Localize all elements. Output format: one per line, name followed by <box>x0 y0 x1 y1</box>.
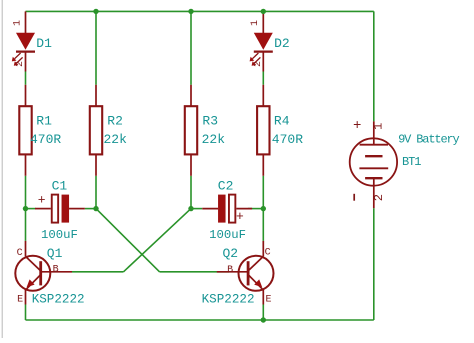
svg-text:100uF: 100uF <box>41 228 78 242</box>
svg-text:22k: 22k <box>202 132 226 147</box>
svg-text:+: + <box>236 209 244 224</box>
svg-text:100uF: 100uF <box>209 228 246 242</box>
svg-text:D1: D1 <box>36 36 52 51</box>
svg-text:R3: R3 <box>202 114 218 129</box>
svg-text:R4: R4 <box>274 114 290 129</box>
svg-text:2: 2 <box>253 61 264 67</box>
svg-text:Q1: Q1 <box>47 246 63 261</box>
svg-text:1: 1 <box>12 20 23 26</box>
svg-text:E: E <box>266 294 272 305</box>
svg-text:B: B <box>53 264 59 275</box>
svg-text:KSP2222: KSP2222 <box>202 292 255 306</box>
svg-text:+: + <box>38 193 46 208</box>
svg-text:2: 2 <box>372 194 386 201</box>
svg-text:C: C <box>265 248 271 259</box>
svg-text:470R: 470R <box>30 132 61 147</box>
svg-text:470R: 470R <box>272 132 303 147</box>
svg-text:1: 1 <box>250 20 261 26</box>
svg-text:2: 2 <box>15 61 26 67</box>
svg-text:R1: R1 <box>36 114 52 129</box>
svg-text:KSP2222: KSP2222 <box>32 292 85 306</box>
svg-text:1: 1 <box>371 123 385 130</box>
svg-text:Q2: Q2 <box>223 246 239 261</box>
svg-text:C1: C1 <box>52 179 68 194</box>
svg-text:C2: C2 <box>218 179 234 194</box>
svg-text:9V Battery: 9V Battery <box>398 133 459 147</box>
svg-text:B: B <box>227 265 233 276</box>
svg-text:D2: D2 <box>274 36 290 51</box>
svg-text:22k: 22k <box>104 132 128 147</box>
svg-text:E: E <box>17 295 23 306</box>
svg-text:BT1: BT1 <box>402 155 421 169</box>
svg-text:C: C <box>17 248 23 259</box>
svg-text:R2: R2 <box>107 114 123 129</box>
svg-text:+: + <box>353 118 361 134</box>
